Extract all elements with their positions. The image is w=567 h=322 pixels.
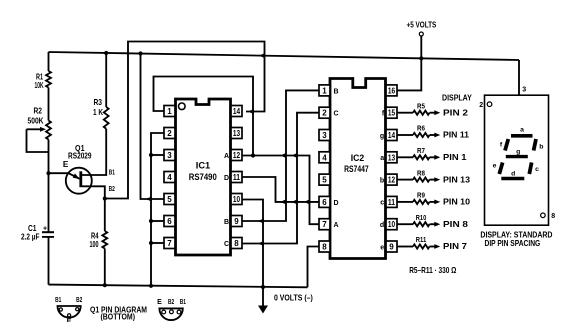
- node pin5 rail junction: [138, 51, 142, 55]
- resistor R11: [397, 246, 413, 248]
- svg-text:PIN 13: PIN 13: [443, 175, 470, 184]
- wire IC1 pin6 stub: [151, 220, 164, 222]
- svg-text:B1: B1: [109, 170, 115, 177]
- svg-text:A: A: [334, 222, 339, 229]
- node pin7 junction: [149, 241, 153, 245]
- IC1 pin 11: [231, 172, 242, 183]
- svg-text:IC1: IC1: [196, 161, 211, 171]
- Q1 pin diagram right: [159, 308, 182, 320]
- node E junction: [46, 171, 50, 175]
- wire C1 bottom: [48, 237, 50, 285]
- node ground leg rail junction: [149, 284, 153, 288]
- resistor R6: [397, 134, 413, 136]
- svg-text:D: D: [224, 175, 229, 182]
- wire IC1 pin11 QD to IC2 pin6: [242, 177, 319, 202]
- IC2 pin 12: [386, 174, 397, 185]
- capacitor C1: [42, 231, 54, 233]
- svg-text:RS7447: RS7447: [344, 164, 369, 174]
- crossover arrow pin14 line: [248, 109, 254, 114]
- svg-text:2.2 µF: 2.2 µF: [21, 233, 40, 242]
- svg-text:a: a: [380, 155, 384, 162]
- wire IC1 pin1 feedback loop: [154, 77, 254, 156]
- svg-text:g: g: [380, 133, 384, 140]
- svg-text:b: b: [380, 177, 384, 184]
- display segment f: [505, 139, 508, 151]
- svg-text:2: 2: [479, 102, 483, 109]
- wire B2 to R4: [104, 199, 106, 232]
- IC1 pin 13: [231, 128, 242, 139]
- svg-text:IC2: IC2: [351, 153, 365, 163]
- IC1 pin 10: [231, 194, 242, 205]
- IC2 pin 5: [319, 174, 330, 185]
- svg-text:c: c: [380, 200, 384, 207]
- IC1 pin 5: [164, 194, 175, 205]
- ground symbol: [262, 287, 264, 306]
- svg-text:R9: R9: [417, 191, 425, 200]
- svg-text:5: 5: [322, 176, 327, 185]
- IC2 pin 13: [386, 152, 397, 163]
- svg-text:c: c: [535, 166, 539, 173]
- display segment g: [506, 155, 528, 158]
- svg-text:0 VOLTS (–): 0 VOLTS (–): [274, 293, 313, 302]
- svg-text:d: d: [380, 222, 384, 229]
- resistor R4: [102, 231, 107, 249]
- svg-text:R6: R6: [417, 124, 425, 133]
- svg-text:14: 14: [233, 107, 241, 116]
- wire Q1 emitter: [49, 173, 80, 179]
- wire R3 to +5V rail: [105, 53, 107, 107]
- svg-text:16: 16: [388, 86, 396, 95]
- IC1 pin 3: [164, 150, 175, 161]
- IC1 pin 14: [231, 106, 242, 117]
- svg-text:e: e: [493, 163, 497, 170]
- svg-text:12: 12: [233, 151, 241, 160]
- svg-text:14: 14: [388, 131, 396, 140]
- svg-text:d: d: [511, 171, 515, 178]
- svg-text:11: 11: [388, 198, 396, 207]
- svg-text:7: 7: [167, 239, 172, 248]
- svg-text:E: E: [157, 299, 162, 306]
- IC2 pin 1: [319, 85, 330, 96]
- node pin6 junction: [149, 219, 153, 223]
- svg-text:4: 4: [322, 153, 327, 162]
- svg-text:10: 10: [233, 195, 241, 204]
- IC1 pin 8: [231, 238, 242, 249]
- IC2 pin 7: [319, 219, 330, 230]
- svg-text:DIP PIN SPACING: DIP PIN SPACING: [485, 239, 541, 248]
- display segment e: [499, 163, 502, 175]
- svg-text:R3: R3: [94, 98, 103, 107]
- svg-text:9: 9: [389, 243, 394, 252]
- svg-text:13: 13: [388, 153, 396, 162]
- IC1 pin 6: [164, 216, 175, 227]
- resistor R1: [46, 71, 51, 88]
- wire IC1 pin12 QA to IC2 pin7: [242, 156, 319, 225]
- svg-text:PIN 8: PIN 8: [443, 220, 469, 229]
- wire IC1 pin9 QB to IC2 pin1: [242, 90, 319, 221]
- svg-text:1 K: 1 K: [93, 108, 103, 117]
- svg-text:DISPLAY: DISPLAY: [442, 93, 472, 103]
- resistor R2 potentiometer: [46, 121, 51, 140]
- svg-text:B: B: [334, 88, 339, 95]
- svg-text:9: 9: [234, 217, 239, 226]
- resistor R8: [397, 179, 413, 181]
- node pin10 ground junction: [261, 285, 265, 289]
- svg-text:R4: R4: [91, 231, 99, 240]
- IC2 pin 3: [319, 130, 330, 141]
- svg-text:PIN 1: PIN 1: [443, 153, 467, 162]
- svg-text:6: 6: [322, 198, 327, 207]
- svg-text:PIN 2: PIN 2: [443, 108, 469, 117]
- resistor R7: [397, 156, 413, 158]
- svg-text:D: D: [334, 200, 339, 207]
- svg-text:10K: 10K: [35, 81, 44, 90]
- svg-text:7: 7: [322, 220, 327, 229]
- display segment a: [511, 134, 533, 138]
- resistor R10: [397, 223, 413, 225]
- svg-text:E: E: [67, 319, 72, 322]
- IC1 pin 7: [164, 238, 175, 249]
- IC2 pin 8: [319, 241, 330, 252]
- wire IC1 pin8 QC to IC2 pin2: [242, 113, 319, 244]
- node B2 junction: [103, 196, 107, 200]
- svg-text:2: 2: [167, 129, 172, 138]
- wire +5V rail: [49, 52, 520, 60]
- wire R2 wiper loop: [27, 129, 49, 152]
- op-amp U2 IC2 RS7447 body: [330, 79, 386, 259]
- svg-text:10: 10: [388, 220, 396, 229]
- svg-text:8: 8: [551, 213, 555, 220]
- svg-text:B: B: [224, 219, 229, 226]
- svg-text:12: 12: [388, 176, 396, 185]
- wire R1 top: [48, 52, 50, 71]
- IC2 pin 4: [319, 152, 330, 163]
- svg-text:E: E: [63, 160, 69, 169]
- svg-text:11: 11: [233, 173, 241, 182]
- wire IC1 pin2 ground leg: [151, 133, 164, 286]
- node pin3 junction: [149, 153, 153, 157]
- svg-text:R5: R5: [417, 101, 425, 110]
- svg-text:R2: R2: [34, 107, 43, 116]
- wire R4 to 0V rail: [104, 249, 106, 286]
- svg-text:1: 1: [167, 107, 172, 116]
- svg-text:a: a: [520, 127, 524, 134]
- svg-text:C: C: [224, 241, 229, 248]
- wire B2 loop to IC1 pin14: [105, 42, 265, 199]
- svg-text:(BOTTOM): (BOTTOM): [101, 313, 136, 322]
- op-amp U1 IC1 RS7490 body: [176, 99, 231, 255]
- svg-text:B2: B2: [168, 299, 174, 306]
- R2 wiper arrow: [27, 128, 42, 130]
- wire R2-C1: [48, 140, 50, 233]
- svg-text:B1: B1: [180, 299, 186, 306]
- node pin12 loop junction: [251, 153, 255, 157]
- svg-text:A: A: [224, 153, 229, 160]
- svg-text:R11: R11: [416, 235, 427, 244]
- svg-text:3: 3: [522, 87, 526, 94]
- IC2 pin 9: [386, 241, 397, 252]
- crossover arrow pin5 line: [146, 196, 152, 201]
- svg-text:8: 8: [234, 239, 239, 248]
- display segment d: [501, 177, 524, 181]
- wire Q1 B2: [82, 186, 105, 198]
- IC2 pin 15: [386, 107, 397, 118]
- node +5V junction: [419, 56, 423, 60]
- node R3 rail junction: [104, 51, 108, 55]
- svg-text:B1: B1: [55, 297, 61, 304]
- wire display pin3 to +5V rail: [518, 60, 520, 95]
- IC2 pin 10: [386, 219, 397, 230]
- node R4 rail junction: [103, 283, 107, 287]
- svg-text:100: 100: [90, 240, 99, 249]
- svg-text:B2: B2: [76, 297, 82, 304]
- svg-text:+: +: [43, 225, 47, 232]
- svg-text:500K: 500K: [28, 117, 44, 126]
- wire IC2 pin8 to 0V: [308, 247, 320, 288]
- Q1 pin diagram left: [58, 306, 81, 318]
- svg-text:RS2029: RS2029: [68, 151, 92, 160]
- svg-text:b: b: [539, 144, 543, 151]
- svg-text:R8: R8: [417, 168, 425, 177]
- IC2 pin 11: [386, 196, 397, 207]
- svg-text:5: 5: [167, 195, 172, 204]
- svg-text:4: 4: [167, 173, 172, 182]
- IC2 pin 14: [386, 130, 397, 141]
- resistor R9: [397, 201, 413, 203]
- IC1 pin 1: [164, 106, 175, 117]
- wire 0V bottom rail: [49, 285, 308, 288]
- IC1 pin 12: [231, 150, 242, 161]
- resistor R3: [104, 107, 109, 129]
- IC2 pin 2: [319, 107, 330, 118]
- transistor Q1 RS2029: [66, 168, 92, 194]
- wire R1-R2: [48, 88, 50, 121]
- display segment b: [534, 139, 536, 151]
- svg-text:g: g: [516, 148, 520, 155]
- svg-text:R7: R7: [417, 146, 425, 155]
- svg-text:6: 6: [167, 217, 172, 226]
- svg-text:13: 13: [233, 129, 241, 138]
- svg-text:1: 1: [322, 86, 327, 95]
- svg-text:+5 VOLTS: +5 VOLTS: [407, 20, 437, 30]
- wire IC1 pin10 ground leg: [242, 200, 263, 288]
- +5 volts terminal: [419, 32, 423, 36]
- wire IC1 pin7 stub: [151, 242, 164, 244]
- wire IC1 pin5 to +5V: [141, 54, 165, 200]
- svg-text:8: 8: [322, 243, 327, 252]
- IC2 pin 6: [319, 196, 330, 207]
- svg-text:15: 15: [388, 109, 396, 118]
- svg-text:2: 2: [322, 109, 327, 118]
- IC1 pin 2: [164, 128, 175, 139]
- crossover arrow rail/B2 leg: [259, 53, 265, 58]
- svg-text:3: 3: [167, 151, 172, 160]
- svg-text:PIN 11: PIN 11: [443, 131, 469, 140]
- svg-text:3: 3: [322, 131, 327, 140]
- svg-text:PIN 7: PIN 7: [443, 242, 468, 251]
- svg-text:R10: R10: [416, 213, 427, 222]
- wire Q1 B1 to R3: [82, 129, 106, 175]
- IC1 pin 9: [231, 216, 242, 227]
- display module: [485, 95, 549, 225]
- svg-text:RS7490: RS7490: [189, 172, 217, 182]
- svg-text:R5–R11 · 330 Ω: R5–R11 · 330 Ω: [409, 266, 457, 275]
- display segment c: [529, 163, 531, 175]
- wire IC1 pin3 stub: [151, 154, 164, 156]
- svg-text:C: C: [334, 111, 339, 118]
- svg-text:PIN 10: PIN 10: [443, 198, 470, 207]
- IC2 pin 16: [386, 85, 397, 96]
- resistor R5: [397, 112, 413, 114]
- svg-text:e: e: [380, 244, 384, 251]
- wire IC2 pin16 to +5V: [397, 58, 421, 90]
- svg-text:B2: B2: [109, 186, 115, 193]
- IC1 pin 4: [164, 172, 175, 183]
